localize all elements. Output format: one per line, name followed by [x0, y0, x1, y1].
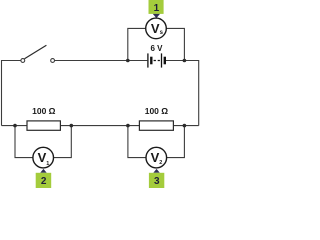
- svg-text:3: 3: [154, 176, 160, 187]
- svg-text:2: 2: [41, 176, 47, 187]
- svg-text:100 Ω: 100 Ω: [145, 106, 169, 116]
- svg-text:6 V: 6 V: [150, 44, 163, 53]
- svg-text:100 Ω: 100 Ω: [32, 106, 56, 116]
- svg-text:1: 1: [154, 3, 160, 14]
